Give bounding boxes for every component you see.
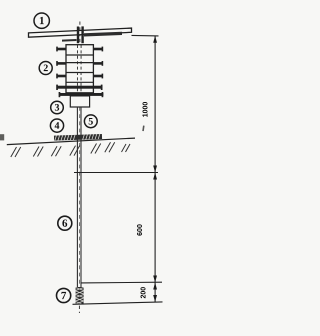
lower short bar right <box>84 32 122 37</box>
pole clamp at crossarm <box>77 26 84 43</box>
dimension extension line: base bottom <box>73 302 163 304</box>
pole centerline (dashed, below base) <box>78 287 80 313</box>
svg-text:2: 2 <box>43 63 48 74</box>
svg-text:600: 600 <box>137 224 144 236</box>
scan smudge under 1000 <box>142 126 144 132</box>
pole upper solid segment <box>77 107 81 287</box>
dimension extension line: base top <box>81 281 162 284</box>
label 4 <box>50 119 63 132</box>
transformer body <box>66 45 93 93</box>
label 2 (transformer) <box>39 62 52 75</box>
svg-text:200: 200 <box>141 287 148 299</box>
label 6 (pole) <box>58 216 72 230</box>
clamp band 2 <box>59 92 104 97</box>
svg-text:1000: 1000 <box>143 102 150 118</box>
pole centerline (dashed, top) <box>79 22 81 108</box>
crossarm bar <box>29 28 132 41</box>
ground line <box>7 138 135 145</box>
left edge scan mark <box>0 134 4 140</box>
svg-text:6: 6 <box>62 218 68 230</box>
label 3 <box>51 101 64 114</box>
bottom block under body <box>70 96 89 107</box>
label 1 (crossarm callout) <box>34 13 49 28</box>
dimension extension line: mid junction <box>74 172 158 174</box>
svg-text:3: 3 <box>54 103 59 114</box>
pole hidden edges in body (dashed) <box>77 45 81 96</box>
pins row 3 <box>56 74 103 79</box>
pins row 1 <box>56 47 103 52</box>
body division lines <box>66 55 93 82</box>
dimension line <box>154 36 156 302</box>
base block (hatched) <box>76 287 84 305</box>
svg-text:5: 5 <box>88 116 93 127</box>
arrowheads <box>153 36 157 302</box>
label 5 <box>84 115 97 128</box>
svg-text:4: 4 <box>54 121 59 132</box>
ground plate (hatched bar) <box>54 134 102 141</box>
pins row 2 <box>56 61 103 66</box>
svg-text:1: 1 <box>39 15 45 27</box>
clamp band 1 <box>56 85 102 90</box>
label 7 (base block) <box>57 288 71 302</box>
svg-text:7: 7 <box>61 290 67 302</box>
ground hatching <box>11 142 130 157</box>
dimension extension line: crossarm <box>132 34 159 37</box>
pole centerline (dashed, buried) <box>79 107 81 287</box>
lower short bar left <box>62 39 77 42</box>
